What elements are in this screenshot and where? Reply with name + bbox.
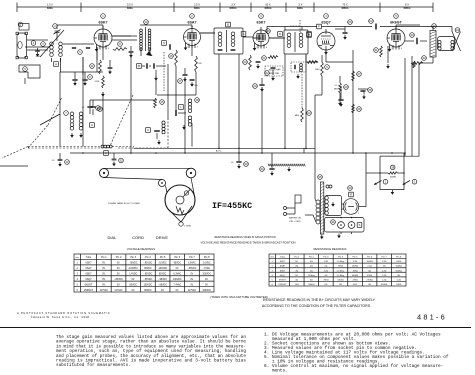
svg-text:100VDC: 100VDC [173, 279, 182, 281]
svg-text:2.2Ω: 2.2Ω [382, 275, 387, 277]
svg-text:6SK7: 6SK7 [257, 21, 266, 25]
svg-text:47KΩ: 47KΩ [367, 275, 373, 277]
svg-text:1.: 1. [264, 332, 269, 337]
svg-text:H: H [105, 151, 107, 155]
svg-text:Pin 4: Pin 4 [338, 257, 344, 259]
svg-text:455KC: 455KC [264, 7, 272, 10]
svg-text:70KΩ: 70KΩ [352, 270, 358, 272]
svg-text:S: S [359, 223, 361, 227]
svg-text:0Ω: 0Ω [310, 279, 313, 281]
svg-text:45W: 45W [353, 284, 357, 286]
svg-text:1.2Ω: 1.2Ω [397, 279, 402, 281]
svg-text:1 TURN: 1 TURN [184, 226, 191, 228]
svg-text:0V.: 0V. [102, 268, 106, 270]
svg-text:7: 7 [344, 213, 345, 215]
svg-text:Pin 5: Pin 5 [353, 257, 359, 259]
svg-text:0Ω: 0Ω [325, 275, 328, 277]
svg-text:-.95VDC: -.95VDC [129, 263, 138, 265]
svg-text:0V.: 0V. [190, 284, 194, 286]
svg-text:MEG: MEG [315, 69, 320, 71]
svg-text:substituted for measurements.: substituted for measurements. [56, 363, 131, 368]
svg-text:6SQ7: 6SQ7 [85, 278, 92, 281]
svg-text:0V.: 0V. [117, 274, 121, 276]
svg-text:2: 2 [187, 47, 188, 49]
svg-text:Pin 6: Pin 6 [175, 256, 181, 259]
svg-text:Tube: Tube [280, 257, 286, 259]
svg-text:1.4 Meg.: 1.4 Meg. [336, 261, 344, 263]
svg-text:Pin 6: Pin 6 [367, 257, 373, 259]
svg-text:0V.: 0V. [132, 290, 136, 292]
svg-text:0V.: 0V. [117, 284, 121, 286]
svg-text:0V.: 0V. [102, 284, 106, 286]
svg-text:270KΩ: 270KΩ [366, 279, 373, 281]
svg-text:13 Meg.: 13 Meg. [308, 275, 316, 277]
svg-text:Pin 2: Pin 2 [116, 256, 122, 259]
svg-text:R: R [350, 193, 352, 197]
svg-text:Item: Item [271, 256, 275, 259]
svg-text:95VDC: 95VDC [174, 263, 182, 265]
svg-text:100KΩ: 100KΩ [337, 279, 344, 281]
svg-text:Pin 3: Pin 3 [130, 256, 136, 259]
svg-text:0V.: 0V. [190, 274, 194, 276]
svg-text:0V.: 0V. [117, 263, 121, 265]
svg-text:6SQ7: 6SQ7 [321, 21, 330, 25]
svg-text:6K6GT: 6K6GT [279, 279, 287, 281]
svg-text:6: 6 [401, 48, 402, 50]
svg-text:455KC: 455KC [403, 7, 411, 10]
svg-text:RESISTANCE READINGS IN THE B+: RESISTANCE READINGS IN THE B+ CIRCUITS M… [263, 298, 376, 302]
svg-text:10Ω: 10Ω [295, 284, 299, 286]
svg-text:Pin 3: Pin 3 [323, 257, 329, 259]
svg-text:-10VDC: -10VDC [159, 263, 168, 265]
svg-text:6.3VAC: 6.3VAC [173, 273, 181, 276]
svg-text:1.4 Meg.: 1.4 Meg. [336, 275, 344, 277]
svg-text:0V.: 0V. [132, 279, 136, 281]
svg-text:5.5 X: 5.5 X [127, 2, 133, 6]
svg-text:A: A [55, 62, 57, 66]
svg-text:2.2Ω: 2.2Ω [324, 261, 329, 263]
svg-text:C2: C2 [369, 19, 373, 23]
svg-text:2: 2 [98, 48, 99, 50]
svg-text:85VDC: 85VDC [130, 284, 138, 286]
svg-text:Pin 5: Pin 5 [160, 256, 166, 259]
svg-text:70KΩ: 70KΩ [396, 261, 402, 263]
svg-text:100VDC: 100VDC [144, 284, 153, 286]
svg-text:©Howard W. Sams & Co., Inc. 19: ©Howard W. Sams & Co., Inc. 1948 [31, 315, 90, 319]
svg-text:RESISTANCE READINGS TAKEN IN G: RESISTANCE READINGS TAKEN IN GANGS POSIT… [214, 236, 275, 239]
svg-text:60 X: 60 X [265, 2, 271, 6]
svg-text:25Z6GT: 25Z6GT [278, 284, 287, 286]
svg-text:0Ω: 0Ω [325, 266, 328, 268]
svg-text:0.5: 0.5 [335, 85, 338, 87]
svg-text:2: 2 [358, 213, 359, 215]
svg-text:Item: Item [76, 256, 80, 259]
svg-text:ments.: ments. [272, 368, 288, 373]
svg-text:6SQ7: 6SQ7 [280, 275, 286, 277]
svg-text:500MΩ: 500MΩ [390, 177, 397, 179]
svg-text:70KΩ: 70KΩ [323, 279, 329, 281]
svg-text:0V.: 0V. [102, 274, 106, 276]
svg-text:7.4VAC: 7.4VAC [173, 283, 181, 286]
svg-text:1.4 Meg.: 1.4 Meg. [336, 270, 344, 272]
svg-text:75 X: 75 X [342, 2, 348, 6]
svg-text:0V.: 0V. [190, 279, 194, 281]
svg-text:DIAL: DIAL [108, 235, 118, 240]
svg-text:2.0VDC: 2.0VDC [203, 263, 211, 265]
svg-text:2.2Ω: 2.2Ω [353, 261, 358, 263]
svg-text:ACCORDING TO THE CONDITION OF: ACCORDING TO THE CONDITION OF THE FILTER… [262, 304, 371, 308]
svg-text:500KΩ: 500KΩ [352, 275, 359, 277]
svg-text:100VDC: 100VDC [202, 274, 211, 276]
svg-text:0V.: 0V. [205, 279, 209, 281]
svg-text:2: 2 [256, 47, 257, 49]
svg-text:100KΩ: 100KΩ [352, 266, 359, 268]
svg-text:AC0VDC: AC0VDC [129, 267, 139, 270]
svg-text:25Z6GT: 25Z6GT [84, 289, 93, 292]
svg-text:TUNING GANG FULLY CLOSED: TUNING GANG FULLY CLOSED [108, 202, 141, 205]
svg-text:NC: NC [295, 275, 298, 277]
svg-text:-.95VDC: -.95VDC [144, 263, 153, 265]
svg-text:Pin 7: Pin 7 [382, 257, 388, 259]
svg-text:6: 6 [197, 47, 198, 49]
svg-text:6SK7: 6SK7 [86, 262, 93, 265]
svg-text:100KΩ: 100KΩ [366, 261, 373, 263]
svg-text:VOLTAGE AND RESISTANCE READING: VOLTAGE AND RESISTANCE READINGS TAKEN IN… [201, 241, 296, 245]
svg-text:0V.: 0V. [117, 268, 121, 270]
svg-text:CORD: CORD [132, 235, 144, 240]
svg-text:Pin 8: Pin 8 [204, 256, 210, 259]
svg-text:60KC: 60KC [297, 7, 303, 10]
svg-text:500KΩ: 500KΩ [396, 270, 403, 272]
svg-text:A PHOTOFACT STANDARD NOTATION: A PHOTOFACT STANDARD NOTATION SCHEMATIC [17, 311, 111, 315]
svg-text:Pin 1: Pin 1 [294, 257, 300, 259]
svg-text:VOLTAGE READINGS: VOLTAGE READINGS [127, 247, 155, 251]
svg-text:60KC: 60KC [127, 7, 133, 10]
svg-text:-.85VDC: -.85VDC [114, 279, 123, 281]
svg-text:0Ω: 0Ω [397, 275, 400, 277]
svg-text:2.2Ω: 2.2Ω [382, 270, 387, 272]
svg-text:70KΩ: 70KΩ [338, 266, 344, 268]
svg-text:0Ω: 0Ω [295, 266, 298, 268]
svg-text:95VDC: 95VDC [144, 290, 152, 292]
svg-text:.3 X: .3 X [298, 2, 303, 6]
svg-text:0Ω: 0Ω [325, 284, 328, 286]
svg-text:P: P [318, 25, 320, 29]
svg-text:8 X: 8 X [405, 2, 409, 6]
svg-text:-.95VDC: -.95VDC [158, 279, 167, 281]
svg-text:0Ω: 0Ω [310, 266, 313, 268]
svg-text:0V.: 0V. [205, 284, 209, 286]
svg-text:Pin 8: Pin 8 [396, 257, 402, 259]
svg-text:C: C [243, 32, 245, 36]
svg-text:455KC: 455KC [229, 7, 237, 10]
svg-text:2.2Ω: 2.2Ω [367, 266, 372, 268]
svg-text:117VAC: 117VAC [114, 289, 123, 292]
svg-text:0V.: 0V. [161, 290, 165, 292]
svg-text:2.2Ω: 2.2Ω [382, 261, 387, 263]
svg-text:5.: 5. [264, 355, 269, 360]
svg-text:100KΩ: 100KΩ [396, 266, 403, 268]
svg-text:455KC: 455KC [341, 7, 349, 10]
svg-text:0Ω: 0Ω [310, 261, 313, 263]
svg-text:95VDC: 95VDC [144, 268, 152, 270]
svg-text:2.2Ω: 2.2Ω [324, 270, 329, 272]
svg-text:0V.: 0V. [176, 290, 180, 292]
svg-text:6: 6 [108, 48, 109, 50]
svg-text:MEG: MEG [334, 89, 339, 91]
svg-text:6: 6 [266, 47, 267, 49]
svg-text:1.4VDC: 1.4VDC [129, 274, 137, 276]
svg-text:A.V.C.: A.V.C. [216, 150, 223, 153]
svg-text:M: M [138, 64, 140, 68]
svg-text:6.: 6. [264, 364, 269, 369]
svg-text:6SK7: 6SK7 [280, 261, 286, 263]
svg-text:117VAC: 117VAC [100, 289, 109, 292]
svg-text:Pin 2: Pin 2 [309, 257, 315, 259]
svg-text:BATTER ON: BATTER ON [289, 217, 301, 220]
svg-text:ADJUST FOR: ADJUST FOR [269, 69, 280, 72]
svg-text:-7VDC: -7VDC [203, 268, 210, 270]
svg-text:100VDC: 100VDC [202, 290, 211, 292]
svg-text:N: N [163, 41, 165, 45]
svg-text:Pin 7: Pin 7 [189, 256, 195, 259]
svg-text:G: G [91, 123, 93, 127]
svg-text:0V.: 0V. [102, 263, 106, 265]
svg-text:Pin 4: Pin 4 [145, 256, 151, 259]
svg-text:-.85VDC: -.85VDC [158, 284, 167, 286]
svg-text:0Ω: 0Ω [295, 279, 298, 281]
svg-text:47KΩ: 47KΩ [352, 279, 358, 281]
svg-text:-.55VDC: -.55VDC [144, 279, 153, 281]
svg-text:455KC TRAP: 455KC TRAP [269, 72, 280, 75]
svg-text:(TAKEN WITH VACUUM TUBE VOLTME: (TAKEN WITH VACUUM TUBE VOLTMETER) [210, 295, 268, 299]
svg-text:470K: 470K [95, 81, 100, 83]
svg-text:PRL. CORD: PRL. CORD [289, 221, 301, 223]
svg-text:6K6GT: 6K6GT [85, 283, 93, 286]
svg-text:0Ω: 0Ω [295, 270, 298, 272]
svg-text:Volume control at maximum, no: Volume control at maximum, no signal app… [272, 364, 443, 369]
svg-text:500KΩ: 500KΩ [308, 284, 315, 286]
svg-text:0Ω: 0Ω [339, 284, 342, 286]
svg-text:6SA7: 6SA7 [86, 267, 93, 270]
svg-text:D: D [279, 32, 281, 36]
svg-text:-100VDC: -100VDC [158, 268, 168, 270]
svg-text:6.3VAC: 6.3VAC [188, 262, 196, 265]
svg-text:-.95VDC: -.95VDC [144, 274, 153, 276]
svg-text:2: 2 [391, 48, 392, 50]
svg-text:NC: NC [295, 261, 298, 263]
svg-text:6SK7: 6SK7 [280, 270, 286, 272]
svg-text:2.2Ω: 2.2Ω [382, 279, 387, 281]
svg-text:5: 5 [332, 33, 333, 35]
svg-text:.3 X: .3 X [231, 2, 236, 6]
svg-text:0Ω: 0Ω [310, 270, 313, 272]
svg-text:117VAC: 117VAC [188, 289, 197, 292]
svg-text:0Ω: 0Ω [383, 266, 386, 268]
svg-text:95VDC: 95VDC [159, 274, 167, 276]
svg-text:450KΩ: 450KΩ [381, 284, 388, 286]
svg-text:Pin 1: Pin 1 [101, 256, 107, 259]
svg-text:70KΩ: 70KΩ [396, 284, 402, 286]
svg-text:0V.: 0V. [102, 279, 106, 281]
svg-text:2.5 X: 2.5 X [194, 2, 200, 6]
svg-text:6SA7: 6SA7 [280, 265, 286, 268]
svg-text:481-6: 481-6 [417, 313, 447, 322]
svg-text:C: C [147, 128, 149, 132]
svg-text:60KC: 60KC [47, 7, 53, 10]
svg-text:6SK7: 6SK7 [99, 21, 108, 25]
svg-text:DRIVE: DRIVE [156, 235, 169, 240]
svg-text:0Ω: 0Ω [368, 270, 371, 272]
svg-text:B: B [227, 23, 229, 27]
svg-text:RESISTANCE READINGS: RESISTANCE READINGS [313, 247, 346, 251]
svg-text:6K6GT: 6K6GT [390, 21, 402, 25]
svg-text:IF=455KC: IF=455KC [212, 201, 252, 211]
svg-text:-.85VDC: -.85VDC [188, 268, 197, 270]
svg-text:Tube: Tube [86, 256, 92, 259]
svg-text:6SA7: 6SA7 [188, 21, 197, 25]
svg-text:MEG: MEG [295, 115, 300, 117]
svg-text:1.5 X: 1.5 X [47, 2, 53, 6]
svg-text:3: 3 [321, 47, 322, 49]
svg-text:6SK7: 6SK7 [86, 273, 93, 276]
svg-text:0V.: 0V. [176, 268, 180, 270]
svg-text:0Ω: 0Ω [368, 284, 371, 286]
svg-text:60KC: 60KC [194, 7, 200, 10]
